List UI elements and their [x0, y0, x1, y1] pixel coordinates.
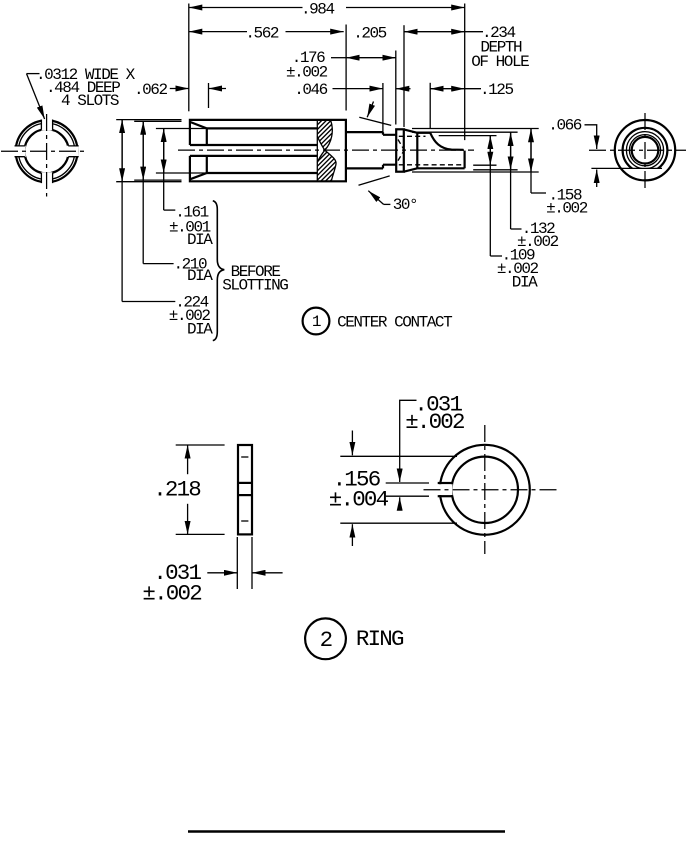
entry chamfer top: [190, 122, 207, 128]
svg-text:.046: .046: [294, 81, 327, 99]
ring front horizontal centerline: [424, 489, 558, 491]
.156 arrow bottom: [351, 524, 353, 546]
.031 side arrow right: [252, 572, 283, 574]
.031 gap ext top: [386, 482, 429, 484]
bore bottom line: [207, 172, 317, 174]
.109 ext bottom: [473, 164, 496, 166]
chamfer end edge bottom: [206, 156, 208, 173]
ext line 346.1: [345, 25, 347, 111]
.210 ext bottom: [134, 179, 181, 181]
30deg leader lower: [368, 191, 383, 205]
dim .125 stub: [465, 88, 481, 90]
ring gap face bottom: [438, 495, 452, 497]
ring gap mask: [433, 484, 453, 495]
entry chamfer bottom: [190, 173, 207, 179]
.156 arrow top: [351, 431, 353, 456]
.109 dim line: [489, 136, 491, 166]
dim .234 stub: [465, 31, 483, 33]
.132 elbow: [511, 228, 522, 230]
footer line: [188, 830, 505, 833]
ext line 464.7 tall: [464, 4, 466, 141]
.224 dim line: [121, 120, 123, 182]
.210 ext top: [134, 120, 181, 122]
slot line top: [190, 144, 317, 146]
svg-text:.984: .984: [301, 0, 334, 18]
collar: [396, 129, 404, 171]
.132 ext bottom: [473, 169, 517, 171]
.210 elbow: [143, 263, 173, 265]
tip bottom edge: [417, 167, 464, 169]
ring side tick top: [241, 456, 248, 458]
dim .984 line left: [189, 7, 303, 9]
.161 ext top: [156, 128, 207, 130]
ring gap face top: [438, 482, 452, 484]
.066 lower arrow: [596, 170, 598, 188]
left view vertical centerline: [46, 114, 48, 197]
ext line 404.0: [403, 25, 405, 127]
chamfer extension line lower: [359, 176, 390, 185]
left end view bore circle: [24, 129, 68, 173]
.161 ext bottom: [156, 172, 207, 174]
.218 dim line top: [187, 445, 189, 474]
dim .046 arrow left: [333, 88, 383, 90]
ext line left 188.8: [188, 4, 190, 112]
svg-text:.125: .125: [480, 81, 513, 99]
right end view circle4: [629, 135, 660, 166]
svg-text:±.002: ±.002: [405, 409, 464, 435]
tip section start edge: [416, 133, 418, 169]
dim .062 arrow left: [170, 88, 189, 90]
brace: [213, 201, 225, 341]
part centerline: [178, 149, 474, 151]
svg-text:OF HOLE: OF HOLE: [471, 53, 529, 71]
end face segments: [464, 151, 466, 169]
dim .062 arrow right: [209, 88, 227, 90]
svg-text:.562: .562: [245, 25, 278, 43]
balloon 2 circle: [305, 618, 346, 659]
ext line 383.3: [382, 83, 384, 132]
ring side tick bottom: [241, 520, 248, 522]
.158 elbow: [531, 192, 546, 194]
svg-text:.062: .062: [134, 81, 167, 99]
svg-text:±.002: ±.002: [546, 200, 588, 218]
.031 gap lower arrow: [399, 497, 401, 510]
slot line bottom: [190, 155, 317, 157]
middle step section: [346, 132, 383, 168]
dim .562 line left: [189, 31, 247, 33]
.210 dim line: [142, 121, 144, 180]
.161 elbow: [164, 209, 176, 211]
.031 gap ext bottom: [386, 495, 429, 497]
flat line / .066 ext: [591, 167, 662, 169]
svg-text:.218: .218: [153, 476, 201, 502]
ring side view rect: [238, 445, 252, 534]
right slot: [68, 146, 78, 157]
.224 elbow: [122, 301, 175, 303]
ring front vertical centerline: [484, 425, 486, 554]
hidden hole cone bottom: [398, 150, 404, 160]
hole bottom curve: [430, 133, 463, 150]
right view vertical centerline: [644, 113, 646, 191]
left end view second circle: [18, 123, 74, 179]
left slot: [15, 146, 25, 157]
slot masks (4 slots): [14, 119, 78, 184]
svg-text:±.004: ±.004: [329, 487, 389, 513]
neck section: [383, 135, 396, 165]
.218 ext bottom: [176, 533, 225, 535]
.132 dim line: [510, 133, 512, 170]
.031 side arrow left: [207, 572, 237, 574]
bore top line: [207, 127, 317, 129]
left view horizontal centerline: [1, 150, 87, 152]
.132 ext top: [412, 131, 518, 133]
bottom slot: [41, 173, 52, 183]
slots note leader: [27, 73, 40, 75]
balloon 1 circle: [303, 308, 330, 335]
.218 dim line bottom: [187, 504, 189, 535]
.031 side ext lines: [236, 537, 238, 589]
dim .984 line right: [346, 7, 465, 9]
dim .125 arrows: [430, 88, 465, 90]
svg-text:30°: 30°: [393, 196, 417, 214]
.224 ext bottom: [116, 181, 181, 183]
.158 dim line: [530, 129, 532, 172]
svg-text:CENTER CONTACT: CENTER CONTACT: [337, 314, 452, 332]
right end view circle3: [626, 132, 663, 169]
taper bottom: [404, 168, 418, 171]
ring front inner circle: [452, 457, 518, 523]
svg-text:DIA: DIA: [187, 321, 213, 339]
dim .562 line right: [286, 31, 344, 33]
right end view circle2: [623, 128, 668, 173]
svg-text:.205: .205: [353, 25, 386, 43]
svg-text:1: 1: [312, 313, 321, 331]
section boundary curve: [317, 120, 332, 150]
dim .176 stub: [331, 57, 346, 59]
hidden hole top: [399, 135, 426, 137]
30deg leader upper: [367, 102, 373, 118]
taper top: [404, 129, 418, 132]
top slot: [41, 120, 52, 130]
svg-text:RING: RING: [356, 626, 404, 652]
right end view bore circle: [632, 137, 659, 164]
svg-text:SLOTTING: SLOTTING: [222, 277, 288, 295]
dim .176 arrows: [346, 57, 396, 59]
svg-text:2: 2: [320, 627, 332, 653]
chamfer extension line upper: [359, 117, 391, 125]
dim .062 ext: [208, 83, 210, 108]
svg-text:DIA: DIA: [187, 231, 213, 249]
.158 ext bottom: [412, 171, 539, 173]
left end view outer circle: [16, 120, 78, 182]
section hatching: [253, 115, 456, 185]
ext line 395.8: [395, 51, 397, 125]
section boundary left: [316, 120, 318, 181]
svg-text:.066: .066: [548, 116, 581, 134]
right end view outer circle: [615, 120, 675, 180]
.161 dim line: [163, 129, 165, 174]
dim .046 arrow right: [396, 88, 411, 90]
tip top edge: [417, 132, 430, 134]
svg-text:4 SLOTS: 4 SLOTS: [61, 92, 119, 110]
ext line 430.2: [429, 83, 431, 128]
.031 gap leader: [400, 400, 417, 465]
right view horizontal centerline: [589, 149, 686, 151]
dim .234 arrows: [404, 31, 465, 33]
ring side slot lines: [238, 482, 252, 484]
ring front outer circle: [440, 445, 530, 535]
.218 ext top: [176, 444, 225, 446]
.109 elbow: [490, 255, 502, 257]
hidden hole cone top: [398, 140, 404, 151]
svg-text:DIA: DIA: [512, 274, 538, 292]
.156 ext top: [340, 455, 457, 457]
chamfer end edge top: [206, 128, 208, 145]
.156 ext bottom: [340, 522, 457, 524]
.109 ext top: [439, 135, 497, 137]
.224 ext top: [116, 119, 181, 121]
.158 ext top: [412, 128, 539, 130]
.066 leader: [585, 125, 597, 135]
svg-text:DIA: DIA: [187, 267, 213, 285]
body outline (socket section): [190, 120, 346, 181]
svg-text:±.002: ±.002: [286, 64, 328, 82]
svg-text:±.002: ±.002: [142, 581, 201, 607]
hidden hole bottom: [399, 164, 464, 166]
